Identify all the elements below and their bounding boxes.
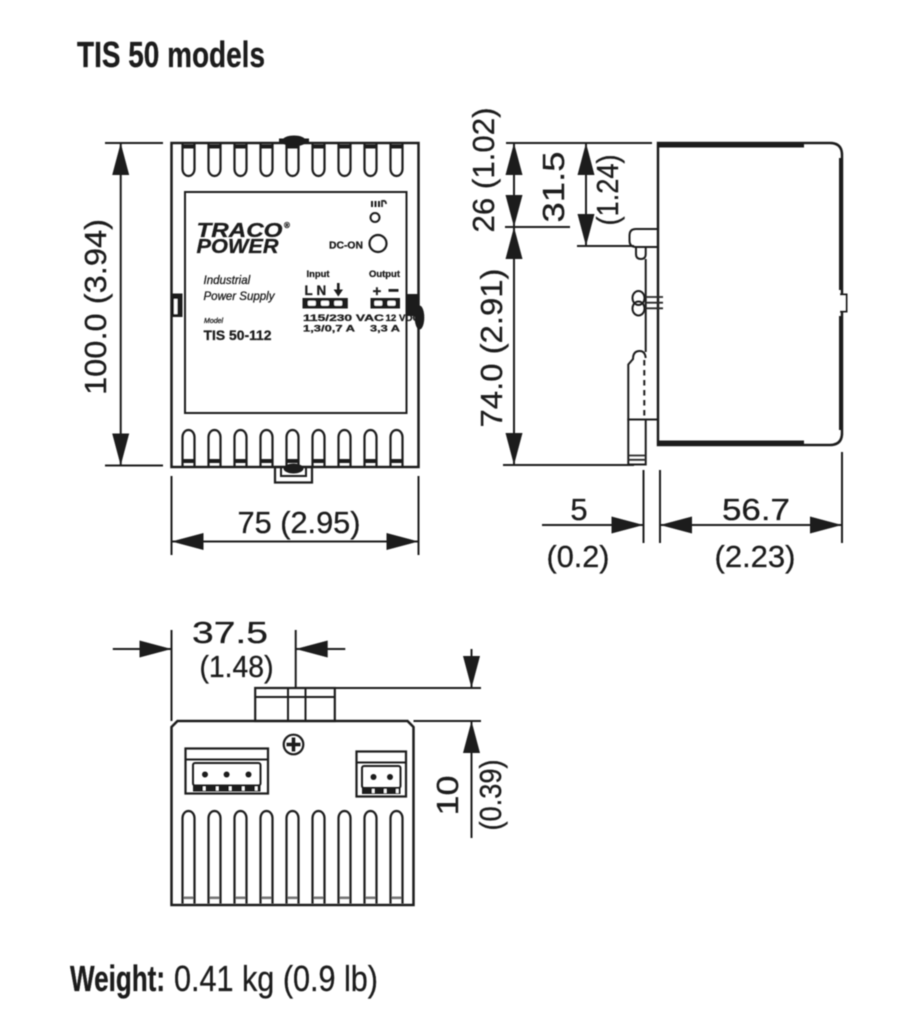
svg-text:Weight:: Weight: [70, 958, 165, 999]
svg-text:115/230 VAC: 115/230 VAC [303, 313, 384, 324]
svg-text:1,3/0,7 A: 1,3/0,7 A [303, 324, 355, 335]
side view right edge notch [839, 295, 847, 312]
Model TIS 50-112 [204, 318, 272, 343]
side top extension line [506, 142, 652, 144]
svg-text:3,3 A: 3,3 A [370, 324, 400, 335]
svg-text:+: + [373, 283, 382, 300]
DIN clip strip [645, 259, 647, 352]
svg-text:Input: Input [307, 269, 331, 280]
left side ear [172, 294, 183, 318]
svg-text:26 (1.02): 26 (1.02) [466, 108, 501, 233]
dimension 75 (2.95) extension lines [172, 476, 419, 555]
bottom view DIN rail tab [255, 688, 335, 721]
svg-text:74.0 (2.91): 74.0 (2.91) [474, 269, 509, 428]
weight text [70, 958, 378, 999]
L N down-arrow [305, 283, 344, 298]
extension line clip outer for 5 [643, 470, 645, 543]
dimension 26 (1.02) line and arrows [506, 143, 523, 227]
front view bottom vent slots [182, 430, 403, 467]
svg-text:L: L [305, 283, 313, 298]
svg-text:(0.39): (0.39) [473, 760, 508, 831]
svg-text:Model: Model [204, 318, 224, 325]
svg-text:(1.24): (1.24) [590, 155, 625, 226]
dimension 75 (2.95) line and arrows [172, 533, 419, 550]
svg-text:Industrial: Industrial [204, 275, 251, 287]
side view thick bottom edge [658, 441, 804, 447]
svg-text:Output: Output [369, 269, 401, 280]
svg-text:37.5: 37.5 [192, 615, 268, 650]
ratings text rows [303, 313, 420, 335]
dimension 37.5 extension lines [172, 630, 296, 721]
svg-text:0.41 kg (0.9 lb): 0.41 kg (0.9 lb) [174, 958, 378, 999]
bottom view screw [284, 735, 304, 755]
adjust icon [371, 201, 386, 207]
svg-text:100.0 (3.94): 100.0 (3.94) [78, 219, 113, 395]
side view thick top edge [658, 142, 804, 148]
front view label panel [185, 192, 407, 413]
side view right edge emphasis [839, 158, 843, 290]
DIN clip lower bracket [628, 351, 659, 420]
dimension 56.7 (2.23) line and arrows [660, 517, 842, 534]
bottom view vent slots [183, 811, 403, 904]
extension line at 31.5 [577, 245, 634, 247]
svg-text:Power Supply: Power Supply [204, 291, 276, 303]
svg-text:10: 10 [430, 776, 465, 816]
svg-text:(1.48): (1.48) [200, 649, 274, 684]
svg-text:5: 5 [570, 492, 587, 527]
svg-text:75 (2.95): 75 (2.95) [238, 505, 361, 540]
TRACO POWER logo [197, 220, 291, 258]
front view body outline [172, 143, 419, 467]
svg-text:TIS 50-112: TIS 50-112 [204, 327, 272, 343]
bottom view body outline [172, 721, 414, 905]
svg-text:®: ® [284, 221, 290, 230]
dimension 37.5 line and arrows [113, 641, 345, 658]
dimension 100.0 (3.94) extension lines [105, 143, 163, 466]
side view body outline [658, 143, 842, 445]
front view bottom DIN latch [275, 464, 312, 483]
small LED circle [371, 213, 380, 222]
extension line at 26 [505, 226, 570, 228]
DIN clip screw [633, 291, 664, 316]
svg-text:TIS 50 models: TIS 50 models [77, 34, 265, 75]
dimension 31.5 (1.24) line and arrows [578, 143, 595, 246]
right side ear [407, 294, 424, 330]
dimension 10 extension lines [335, 688, 481, 721]
dimension 74.0 (2.91) line and arrows [506, 227, 523, 465]
bottom view input terminal 3-pole [186, 749, 269, 794]
DC-ON circle [370, 235, 387, 252]
plus minus [373, 283, 399, 300]
svg-text:31.5: 31.5 [536, 152, 571, 223]
input terminal block [303, 298, 348, 309]
DIN clip slider foot [628, 420, 645, 465]
svg-text:N: N [317, 283, 327, 298]
Industrial Power Supply text [204, 275, 276, 303]
svg-text:(0.2): (0.2) [547, 539, 610, 574]
svg-text:(2.23): (2.23) [715, 539, 796, 574]
svg-text:POWER: POWER [197, 236, 280, 258]
svg-text:56.7: 56.7 [722, 492, 790, 527]
dimension 10 line and arrows [463, 649, 480, 838]
front view top vent slots [182, 142, 403, 176]
DIN clip top bracket [630, 229, 660, 259]
bottom view output terminal 2-pole [357, 752, 407, 797]
dimension 100.0 (3.94) line and arrows [112, 143, 129, 466]
output terminal block [371, 298, 401, 309]
extension line body right for 56.7 [841, 452, 843, 543]
dimension 5 (0.2) line and arrows [542, 517, 644, 534]
extension line body back for 5 [659, 470, 661, 543]
front view top DIN latch knob [279, 136, 309, 147]
svg-text:DC-ON: DC-ON [329, 241, 363, 252]
extension line at 74 bottom [503, 464, 634, 466]
